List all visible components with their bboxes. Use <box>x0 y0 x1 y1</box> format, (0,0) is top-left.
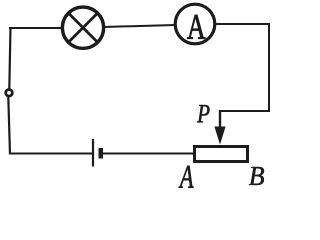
wire: bottom right (rheostat to battery) <box>103 153 194 155</box>
wire: slider feed horizontal <box>219 110 270 112</box>
wire: right vertical <box>268 23 270 112</box>
label B (right end of rheostat) <box>249 167 264 185</box>
label P <box>197 105 210 122</box>
switch pivot circle <box>6 90 13 97</box>
wire: slider stem <box>219 110 221 129</box>
wire: upper left vertical <box>9 27 10 89</box>
battery: long thin plate <box>92 139 94 167</box>
wire: top-left horizontal <box>9 27 63 29</box>
wire: switch blade (lower left vertical) <box>8 97 10 155</box>
label A (left end of rheostat) <box>179 166 194 188</box>
lamp L1 <box>62 7 103 48</box>
wire: top-right horizontal <box>214 23 270 25</box>
ammeter A1 <box>175 4 215 44</box>
slider arrow P <box>214 127 225 145</box>
wire: bottom left (battery to corner) <box>9 153 92 155</box>
battery: short thick plate <box>99 148 104 159</box>
rheostat body <box>195 147 248 162</box>
wire: top middle horizontal <box>103 25 175 27</box>
